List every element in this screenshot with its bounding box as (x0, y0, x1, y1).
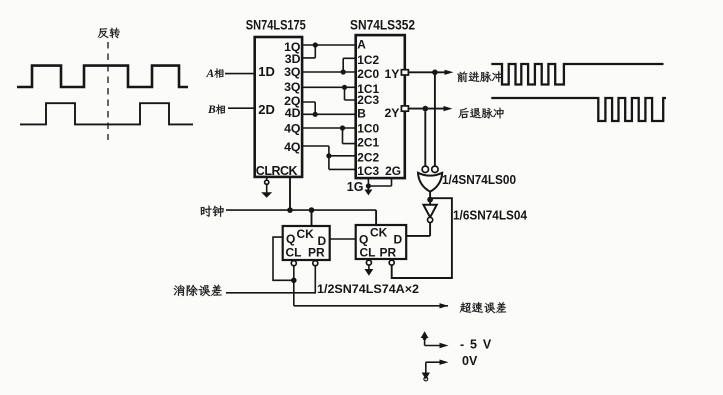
svg-text:2Y: 2Y (384, 106, 399, 120)
svg-text:3Q: 3Q (284, 65, 301, 79)
svg-text:2G: 2G (385, 164, 401, 178)
svg-text:Q: Q (359, 233, 368, 247)
svg-text:SN74LS352: SN74LS352 (350, 17, 415, 33)
svg-text:1/4SN74LS00: 1/4SN74LS00 (442, 173, 516, 187)
svg-text:3D: 3D (285, 52, 301, 66)
svg-text:1C0: 1C0 (357, 122, 379, 136)
svg-text:CL: CL (286, 246, 302, 260)
svg-text:A: A (206, 68, 215, 80)
svg-text:A: A (357, 38, 366, 52)
svg-text:4Q: 4Q (284, 140, 301, 154)
svg-text:2C2: 2C2 (357, 151, 379, 165)
svg-text:2C0: 2C0 (357, 67, 379, 81)
svg-text:PR: PR (380, 246, 397, 260)
svg-text:B: B (207, 104, 216, 116)
svg-text:CL: CL (360, 246, 376, 260)
svg-text:PR: PR (308, 246, 325, 260)
svg-text:CK: CK (370, 226, 388, 240)
svg-text:D: D (394, 233, 403, 247)
svg-text:1C3: 1C3 (357, 164, 379, 178)
svg-text:SN74LS175: SN74LS175 (246, 17, 306, 33)
svg-text:- 5 V: - 5 V (460, 337, 492, 351)
svg-text:1G: 1G (347, 180, 364, 194)
svg-text:CK: CK (297, 227, 315, 241)
svg-text:0V: 0V (462, 354, 478, 368)
svg-text:2D: 2D (258, 102, 275, 117)
svg-text:4Q: 4Q (284, 122, 301, 136)
svg-text:1C2: 1C2 (357, 53, 379, 67)
svg-text:1/2SN74LS74A×2: 1/2SN74LS74A×2 (317, 282, 419, 296)
svg-text:1Y: 1Y (384, 67, 399, 81)
svg-text:2C3: 2C3 (357, 93, 379, 107)
svg-text:3Q: 3Q (284, 80, 301, 94)
svg-text:B: B (357, 107, 366, 121)
svg-text:1D: 1D (258, 64, 275, 79)
svg-text:1/6SN74LS04: 1/6SN74LS04 (453, 209, 527, 223)
svg-text:4D: 4D (285, 106, 301, 120)
svg-text:2C1: 2C1 (357, 135, 379, 149)
svg-text:Q: Q (286, 232, 295, 246)
svg-text:CLRCK: CLRCK (256, 164, 298, 178)
